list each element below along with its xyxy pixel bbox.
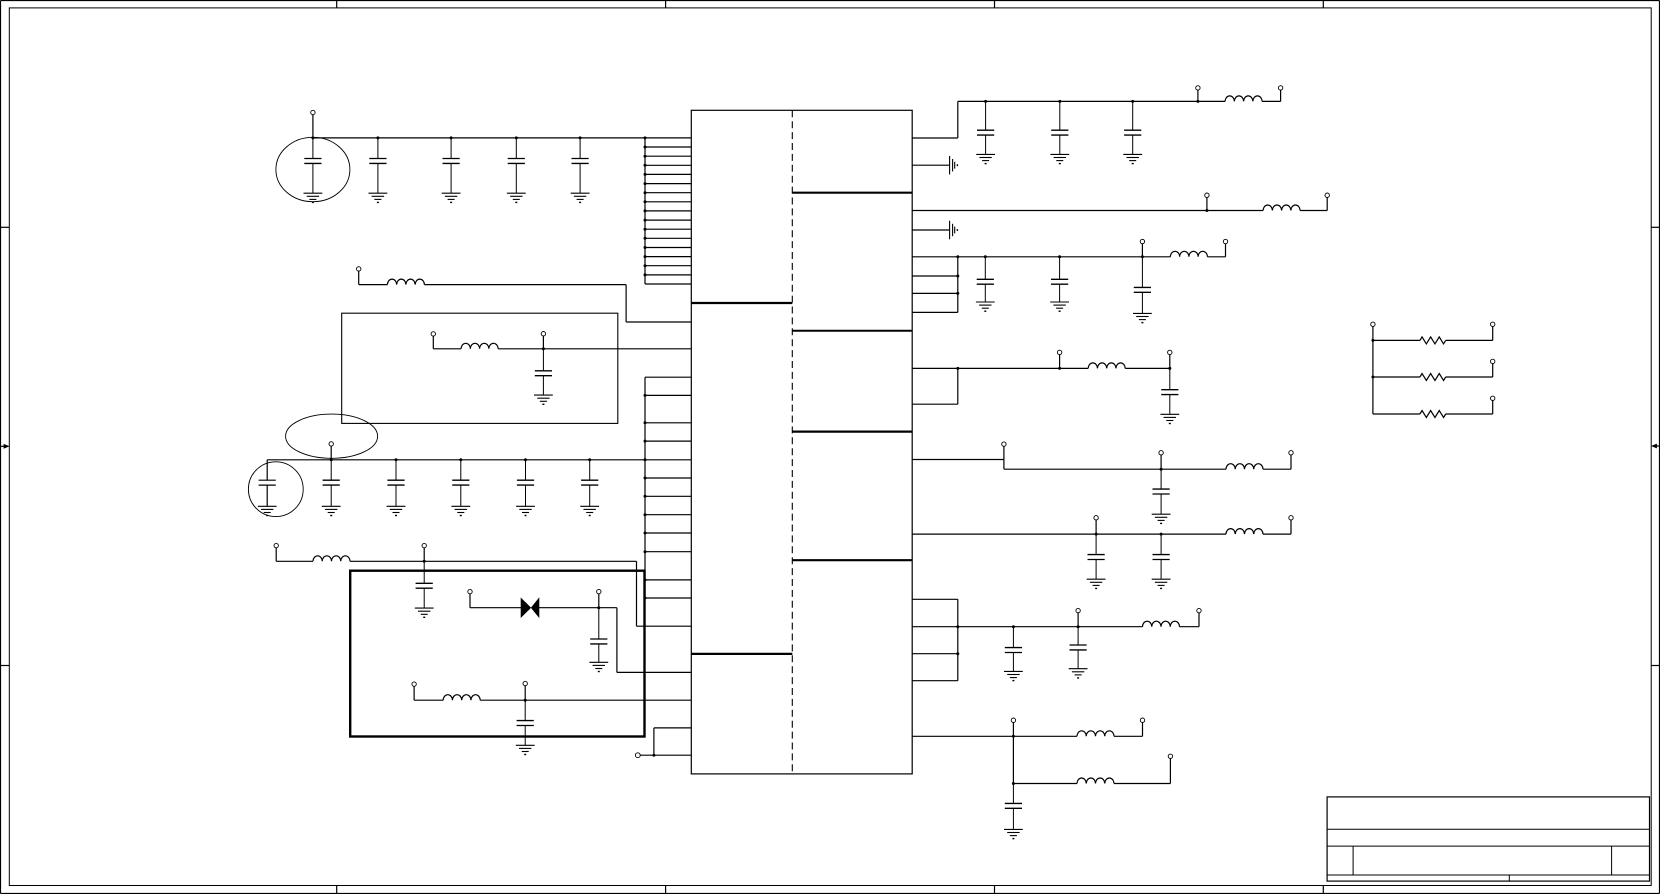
capacitor C10 [452,460,469,507]
inductor L10 [1226,529,1263,534]
terminal P11 [523,681,527,685]
terminal P13 [1196,86,1200,90]
wire row F tie bus [957,368,959,404]
wire L4 to U1 pin y700 [480,699,691,701]
ground for C14 [589,662,608,671]
wire P8 lead down [469,594,471,608]
node row1 junction A [311,136,314,139]
wire U1 right pin y368 [912,367,1088,369]
ground for C8 [322,506,341,515]
junction dot at C3 [450,136,453,139]
wire row2 left end corner [266,460,268,480]
wire U1 right pin y736 [912,735,1077,737]
resistor R1 [1420,337,1446,344]
terminal P23 [1289,451,1293,455]
U1 thick section divider right-top [792,192,912,194]
inductor L12 [1077,731,1114,737]
junction dot row C [1205,209,1208,212]
terminal P18 [1223,239,1227,243]
terminal P10 [412,682,416,686]
junction dot row J 2 [1012,782,1015,785]
junction dot row F mid [1058,367,1061,370]
junction dot at C5 [579,136,582,139]
wire U1 right pin y459 [912,459,1004,461]
capacitor C8 [323,460,340,507]
ground for C23 [1152,514,1171,523]
wire P9 lead down [598,594,600,608]
wire P24 lead down [1095,520,1097,534]
wire L1 row segment a [359,284,388,286]
capacitor C2 [369,138,386,193]
junction dot row H 1 [1095,533,1098,536]
U1 left top pin group (17 pins) [645,138,691,284]
junction dot row A 3 [1131,100,1134,103]
ground for C19 [976,302,995,311]
terminal P22 [1159,451,1163,455]
wire into U1 pin y727 [654,727,691,729]
wire P27 riser [1198,613,1200,627]
capacitor C13 [416,561,433,608]
wire into U1 pin y672 [617,671,691,673]
wire L7 out segment [1207,256,1225,258]
inductor L1 [387,279,424,285]
wire L12 out segment [1114,735,1143,737]
ground for C18 [1123,154,1142,163]
terminal P8 [468,589,472,593]
wire L5 out segment [1262,100,1281,102]
wire P5 lead down [330,446,332,460]
terminal P1 [311,110,315,114]
capacitor C26 [1005,627,1022,672]
wire P12 riser [653,728,655,755]
terminal P26 [1076,608,1080,612]
U1 thick section divider left-lower [691,653,792,655]
terminal P34 [1491,396,1495,400]
wire P18 riser [1225,244,1227,257]
capacitor C24 [1088,534,1105,579]
wire P14 riser [1280,90,1282,101]
wire row I tie bus [957,599,959,680]
wire L6 out segment [1300,210,1327,212]
wire P26 lead down [1077,613,1079,627]
wire L13 out segment [1114,783,1170,785]
junction dot row J 1 [1012,735,1015,738]
junction dot at C4 [515,136,518,139]
wire row E tie bus [957,257,959,313]
terminal P17 [1140,239,1144,243]
terminal P3 [431,332,435,336]
wire row G rail [1004,468,1226,470]
capacitor C15 [517,700,534,745]
ground for C7 [258,506,277,515]
left edge center arrow marker [1,444,10,449]
ground for C1 [304,193,323,202]
ellipse highlight around C1 [276,137,350,201]
capacitor C19 [977,257,994,302]
terminal P24 [1094,516,1098,520]
ground for C13 [415,608,434,617]
wire P7 lead down [423,548,425,562]
U1 left middle pin group (12 pins) [645,377,691,598]
junction dot row G [1160,468,1163,471]
inductor L11 [1143,621,1180,627]
wire into U1 pin y626 [637,625,692,627]
junction dots on top pin bus [644,136,647,276]
wire row E rail [958,256,1171,258]
capacitor C4 [508,138,525,193]
wire L11 out segment [1180,626,1200,628]
capacitor C6 [535,349,552,395]
wire P30 riser [1169,759,1171,784]
inductor L4 [443,695,480,701]
wire P12 to junction [640,754,691,756]
ground for C26 [1004,671,1023,680]
junction dot at C10 [459,458,462,461]
diode D1 (bidirectional TVS) [521,598,539,617]
wire corner down to pin [625,285,627,322]
capacitor C16 [977,101,994,154]
wire P31 lead down [1372,327,1374,341]
ground for C12 [580,506,599,515]
junction dot R bus 2 [1371,376,1374,379]
U1 dashed internal divider [791,110,793,774]
wire P11 lead down [524,686,526,701]
capacitor C28 [1005,784,1022,830]
terminal P29 [1140,718,1144,722]
junction dot at C8 [330,458,333,461]
ground for C9 [387,506,406,515]
ground for C6 [534,395,553,404]
wire middle pin bus vertical [644,377,646,598]
ground for C24 [1087,579,1106,588]
junction dot row I 2 [1077,625,1080,628]
ground for C3 [442,193,461,202]
wire P29 riser [1142,722,1144,736]
wire L4 segment a [414,699,443,701]
inductor L3 [313,556,350,562]
top edge zone tick marks [337,1,1324,8]
wire row A riser [957,101,959,138]
wire L10 out segment [1263,533,1291,535]
wire P6 lead down [275,548,277,562]
wire into U1 pin y322 [626,321,691,323]
capacitor C9 [387,460,404,507]
wire R1 segment a [1373,339,1420,341]
terminal P19 [1057,350,1061,354]
wire L8 out segment [1125,367,1170,369]
wire P17 lead down [1141,244,1143,257]
terminal P33 [1491,359,1495,363]
ground for C27 [1069,669,1088,678]
junction dot row H 2 [1160,533,1163,536]
wire row I rail [958,626,1143,628]
ground for C11 [516,506,535,515]
terminal P32 [1491,322,1495,326]
wire P13 lead down [1197,90,1199,101]
shield box outline B1 [342,313,618,423]
capacitor C20 [1051,257,1068,302]
bottom edge zone tick marks [337,886,1324,894]
junction dot row A 1 [984,100,987,103]
inductor L13 [1077,778,1114,784]
wire P16 riser [1326,197,1328,210]
wire U1 right pin y165 [912,164,949,166]
left edge zone tick marks [1,227,10,665]
junction dot at C12 [588,458,591,461]
junction dot row E 3 [1141,255,1144,258]
wire R1 segment b [1446,339,1493,341]
wire diode corner down [616,608,618,673]
op-amp U1 main IC outline [691,110,912,774]
inductor L8 [1088,363,1125,369]
terminal P15 [1205,193,1209,197]
terminal P9 [597,589,601,593]
capacitor C27 [1070,627,1087,669]
chassis ground right row B [950,156,958,175]
junction dots on middle pin bus [644,394,647,600]
U1 right pin group I (4 pins) [912,599,958,680]
wire P3 lead down [432,336,434,349]
capacitor C25 [1153,534,1170,579]
U1 right pin group E (4 pins) [912,257,958,313]
wire U1 right pin y138 [912,137,958,139]
wire P28 lead down [1012,722,1014,736]
U1 thick section divider right-2 [792,330,912,332]
chassis ground right row D [950,221,958,240]
terminal P16 [1325,193,1329,197]
title block [1327,797,1649,881]
capacitor C1 [304,138,321,193]
wire diode anode segment [470,607,521,609]
ground for C5 [571,193,590,202]
wire U1 right pin y404 [912,403,958,405]
ground for C20 [1050,302,1069,311]
inductor L7 [1170,251,1207,257]
ground for C10 [451,506,470,515]
ground for C4 [507,193,526,202]
terminal P21 [1002,442,1006,446]
junction dots row E bus [956,255,959,295]
wire U1 right pin y534 [912,533,1226,535]
wire box1 segment b [498,348,691,350]
junction dot box1 [542,347,545,350]
terminal P30 [1168,754,1172,758]
ground for C2 [369,193,388,202]
right edge center arrow marker [1651,444,1660,449]
U1 thick section divider left-upper [691,302,792,304]
capacitor C5 [572,138,589,193]
terminal P7 [422,543,426,547]
wire row J drop [1012,736,1014,783]
wire P20 lead down [1169,355,1171,369]
junction dot diode node [597,606,600,609]
wire R2 segment b [1446,376,1493,378]
capacitor C3 [443,138,460,193]
ground for C16 [976,154,995,163]
ellipse highlight around C7 [248,462,303,517]
shield box outline B2 (thick) [350,571,644,737]
wire P32 riser [1492,327,1494,341]
inductor L9 [1226,464,1263,469]
junction dot row E 2 [1058,255,1061,258]
wire diode cathode segment [539,607,617,609]
wire P22 lead down [1160,455,1162,469]
junction dot row A 2 [1058,100,1061,103]
wire left top pin bus vertical [644,138,646,284]
wire P2 lead down [358,271,360,285]
wire P1 lead [312,115,314,138]
terminal P20 [1168,350,1172,354]
inductor L2 [461,343,498,349]
terminal P6 [274,543,278,547]
ellipse highlight big E2 [286,414,378,458]
wire R3 segment b [1446,413,1493,415]
wire L1 to corner [424,284,626,286]
capacitor C18 [1124,101,1141,154]
junction dot row I 1 [1012,625,1015,628]
wire U1 right pin y210 [912,210,1207,212]
wire P19 lead down [1059,355,1061,369]
capacitor C21 [1134,257,1151,314]
capacitor C22 [1161,368,1178,414]
terminal P31 [1371,322,1375,326]
junction dot at C13 [423,560,426,563]
terminal P25 [1289,516,1293,520]
resistor R3 [1420,411,1446,418]
capacitor C17 [1051,101,1068,154]
wire row A rail [958,100,1225,102]
junction dot at C9 [395,458,398,461]
terminal P28 [1011,718,1015,722]
wire cap row 1 bus [313,137,645,139]
wire R3 segment a [1373,413,1420,415]
inductor L6 [1263,205,1300,211]
wire cap row 2 bus [267,459,645,461]
junction dot row F bus [956,367,959,370]
right edge zone tick marks [1651,227,1659,665]
junction dot R bus 1 [1371,339,1374,342]
capacitor C11 [517,460,534,507]
junction dot at C11 [524,458,527,461]
wire P34 riser [1492,401,1494,415]
wire resistor tie bus [1372,340,1374,414]
wire row J sub rail [1013,783,1077,785]
wire P21 riser [1003,446,1005,459]
junction dot row E 1 [984,255,987,258]
wire L9 out segment [1263,468,1291,470]
wire P23 riser [1290,455,1292,469]
terminal P2 [357,267,361,271]
wire R2 segment a [1373,376,1420,378]
wire row C segment [1207,210,1263,212]
ground for C17 [1050,154,1069,163]
wire P10 lead down [413,686,415,700]
resistor R2 [1420,374,1446,381]
wire P15 lead down [1206,197,1208,210]
ground for C22 [1160,414,1179,423]
terminal P27 [1197,608,1201,612]
terminal P12 [635,753,640,758]
capacitor C14 [590,608,607,663]
wire L3 corner down [636,561,638,626]
terminal P5 [329,442,333,446]
wire P25 riser [1290,520,1292,534]
terminal P14 [1278,86,1282,90]
junction dot at C2 [376,136,379,139]
ground for C15 [516,745,535,754]
terminal P4 [541,332,545,336]
capacitor C23 [1153,469,1170,514]
junction dot row A 4 [1196,100,1199,103]
U1 thick section divider right-4 [792,559,912,561]
wire box1 segment a [433,348,461,350]
inductor L5 [1225,96,1262,101]
capacitor C12 [581,460,598,507]
junction dots row I bus [956,625,959,655]
wire L3 row segment a [276,560,313,562]
wire P4 lead down [542,336,544,349]
capacitor C7 [259,480,276,506]
ground for C25 [1152,579,1171,588]
ground for C21 [1133,313,1152,322]
junction dot P12 [652,754,655,757]
wire L3 row segment b [350,560,637,562]
ground for C28 [1004,829,1023,838]
junction dot row F end [1168,367,1171,370]
wire U1 right pin y230 [912,229,949,231]
wire P33 riser [1492,364,1494,377]
wire row G jog down [1003,460,1005,470]
U1 thick section divider right-3 [792,431,912,433]
junction dot at C15 [524,699,527,702]
